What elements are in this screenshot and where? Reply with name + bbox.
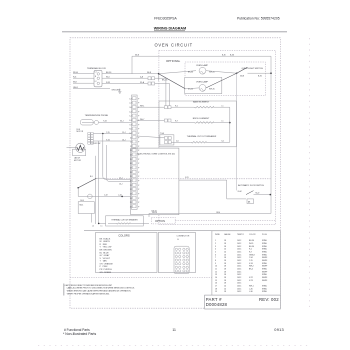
svg-text:105C: 105C <box>237 254 242 256</box>
svg-text:12: 12 <box>215 271 217 273</box>
svg-text:P: P <box>138 159 139 161</box>
svg-text:2-4: 2-4 <box>129 103 131 105</box>
svg-text:18: 18 <box>224 277 226 279</box>
svg-text:P: P <box>138 146 139 148</box>
svg-text:14: 14 <box>224 285 226 287</box>
svg-text:TEMP R: TEMP R <box>237 234 244 236</box>
svg-text:15-J: 15-J <box>122 132 126 134</box>
svg-text:17: 17 <box>215 285 217 287</box>
svg-text:WH-35: WH-35 <box>209 89 215 91</box>
svg-text:18: 18 <box>224 269 226 271</box>
svg-text:WIRING DIAGRAM: WIRING DIAGRAM <box>154 27 186 31</box>
svg-text:SRML: SRML <box>262 263 267 265</box>
svg-text:TERMINAL BLOCK: TERMINAL BLOCK <box>87 67 107 70</box>
svg-text:105C: 105C <box>237 263 242 265</box>
svg-text:11: 11 <box>172 328 176 332</box>
svg-text:14: 14 <box>224 252 226 254</box>
svg-text:SRML: SRML <box>262 240 267 242</box>
svg-text:18-M: 18-M <box>216 212 220 214</box>
svg-text:2: 2 <box>215 243 216 245</box>
svg-text:12: 12 <box>130 146 132 148</box>
svg-text:7: 7 <box>215 257 216 259</box>
svg-text:SEWF: SEWF <box>262 271 268 273</box>
svg-text:R RED: R RED <box>100 244 108 246</box>
svg-text:5-1: 5-1 <box>129 116 131 118</box>
svg-text:WH-1: WH-1 <box>249 285 254 287</box>
svg-text:B-36: B-36 <box>230 55 234 57</box>
svg-text:OVEN CIRCUIT: OVEN CIRCUIT <box>155 42 193 47</box>
svg-text:VERIFY PROPER OPERATION AFTER: VERIFY PROPER OPERATION AFTER SERVICING. <box>67 292 111 295</box>
svg-text:0913: 0913 <box>274 327 284 332</box>
svg-text:16: 16 <box>130 163 132 165</box>
svg-text:WH-7: WH-7 <box>140 119 144 121</box>
svg-text:B-36: B-36 <box>222 55 226 57</box>
svg-text:24: 24 <box>130 198 132 200</box>
svg-text:SEWF: SEWF <box>262 260 268 262</box>
svg-text:105C: 105C <box>237 240 242 242</box>
svg-text:105C: 105C <box>237 269 242 271</box>
svg-text:WH-2: WH-2 <box>249 266 254 268</box>
svg-text:36-M: 36-M <box>240 75 245 77</box>
svg-text:18: 18 <box>224 280 226 282</box>
svg-text:200C: 200C <box>237 271 242 273</box>
svg-text:SRML: SRML <box>262 246 267 248</box>
svg-text:P: P <box>138 193 139 195</box>
svg-text:4: 4 <box>215 249 216 251</box>
svg-text:105C: 105C <box>237 283 242 285</box>
svg-text:P: P <box>138 168 139 170</box>
svg-text:COLOR: COLOR <box>249 234 256 236</box>
svg-text:BK-36: BK-36 <box>162 80 167 82</box>
svg-text:P: P <box>138 198 139 200</box>
svg-text:16-J: 16-J <box>122 139 126 141</box>
svg-text:34-J: 34-J <box>120 121 124 123</box>
svg-text:BK-36: BK-36 <box>188 72 193 74</box>
svg-text:BK-36: BK-36 <box>106 72 111 74</box>
svg-text:18: 18 <box>224 283 226 285</box>
svg-text:21: 21 <box>130 185 132 187</box>
svg-text:R-7: R-7 <box>249 252 252 254</box>
svg-text:P: P <box>138 98 139 100</box>
svg-text:SEWF: SEWF <box>262 277 268 279</box>
svg-text:OPTIONAL: OPTIONAL <box>166 59 181 63</box>
svg-text:105C: 105C <box>237 243 242 245</box>
svg-text:GY GRAY: GY GRAY <box>100 254 111 257</box>
svg-text:15: 15 <box>215 280 217 282</box>
svg-text:P: P <box>138 103 139 105</box>
svg-text:V-23: V-23 <box>249 280 253 282</box>
svg-text:W WHITE: W WHITE <box>100 241 111 243</box>
svg-text:105C: 105C <box>237 274 242 276</box>
svg-text:18: 18 <box>224 243 226 245</box>
svg-text:13: 13 <box>130 150 132 152</box>
svg-text:Y-15: Y-15 <box>249 260 253 262</box>
svg-text:CAUTION/DISCONNECT POWER BEFOR: CAUTION/DISCONNECT POWER BEFORE SERVICIN… <box>65 284 113 287</box>
svg-text:OVEN LAMP: OVEN LAMP <box>196 64 209 67</box>
svg-text:* Non-Illustrated Parts: * Non-Illustrated Parts <box>63 332 96 336</box>
svg-text:SEWF: SEWF <box>262 257 268 259</box>
svg-text:R-1: R-1 <box>175 105 178 107</box>
svg-text:WIRE: WIRE <box>215 234 220 236</box>
svg-text:16: 16 <box>224 254 226 256</box>
svg-text:REV: 002: REV: 002 <box>259 297 279 302</box>
svg-text:COLORS: COLORS <box>118 234 130 238</box>
svg-text:T TAN: T TAN <box>100 260 108 263</box>
svg-text:P: P <box>138 180 139 182</box>
svg-text:18: 18 <box>224 266 226 268</box>
svg-text:FFED3025PSA: FFED3025PSA <box>154 17 177 21</box>
svg-text:P: P <box>138 137 139 139</box>
svg-text:L2: L2 <box>92 226 94 228</box>
svg-text:105C: 105C <box>237 288 242 290</box>
svg-text:THERMAL CUTOUT BREAKER: THERMAL CUTOUT BREAKER <box>187 135 217 138</box>
svg-text:L-32: L-32 <box>118 195 122 197</box>
svg-text:6: 6 <box>215 254 216 256</box>
svg-text:ELECTRONIC OVEN CONTROL ES 100: ELECTRONIC OVEN CONTROL ES 100 <box>138 154 176 156</box>
svg-text:25: 25 <box>130 202 132 204</box>
svg-text:P: P <box>138 129 139 131</box>
svg-text:GAUGE: GAUGE <box>224 233 231 236</box>
svg-text:19: 19 <box>130 176 132 178</box>
svg-text:GRN-8: GRN-8 <box>249 254 255 256</box>
svg-text:W-4: W-4 <box>106 77 109 79</box>
svg-text:P: P <box>138 155 139 157</box>
svg-text:105C: 105C <box>237 291 242 293</box>
svg-text:P: P <box>138 111 139 113</box>
svg-text:SRML: SRML <box>262 243 267 245</box>
svg-text:P: P <box>138 116 139 118</box>
svg-text:WH-35: WH-35 <box>209 72 215 74</box>
svg-text:D0004828: D0004828 <box>206 302 228 307</box>
svg-text:P: P <box>138 189 139 191</box>
svg-text:P: P <box>138 172 139 174</box>
svg-text:4-2: 4-2 <box>129 111 131 113</box>
svg-text:TEMPERATURE PROBE: TEMPERATURE PROBE <box>85 114 109 117</box>
svg-text:11: 11 <box>215 269 217 271</box>
svg-text:LABEL ALL WIRES PRIOR TO DISCO: LABEL ALL WIRES PRIOR TO DISCONNECTION W… <box>67 287 136 290</box>
svg-text:L1: L1 <box>101 226 103 228</box>
svg-text:GROUND: GROUND <box>112 89 121 91</box>
svg-text:18: 18 <box>224 260 226 262</box>
svg-text:22: 22 <box>130 189 132 191</box>
svg-text:V VIOLET: V VIOLET <box>100 258 111 260</box>
svg-text:18: 18 <box>215 288 217 290</box>
svg-text:OPTION: OPTION <box>155 219 165 223</box>
svg-text:L-35: L-35 <box>249 288 253 290</box>
svg-text:GN GREEN: GN GREEN <box>100 272 112 274</box>
svg-text:20-M: 20-M <box>238 191 242 193</box>
svg-text:BL BLUE: BL BLUE <box>100 252 110 254</box>
svg-text:SRML: SRML <box>262 291 267 293</box>
svg-text:14: 14 <box>130 155 132 157</box>
svg-text:Y-34: Y-34 <box>103 121 107 123</box>
svg-text:BROIL ELEMENT: BROIL ELEMENT <box>193 118 210 120</box>
svg-text:R-7: R-7 <box>175 121 178 123</box>
svg-text:B-5: B-5 <box>90 176 93 178</box>
svg-text:18: 18 <box>130 172 132 174</box>
svg-text:5: 5 <box>215 252 216 254</box>
svg-text:P: P <box>138 142 139 144</box>
svg-text:9: 9 <box>215 263 216 265</box>
svg-text:RD-B: RD-B <box>73 72 79 74</box>
svg-text:MOTOR: MOTOR <box>77 131 84 133</box>
svg-text:1: 1 <box>215 240 216 242</box>
svg-text:105C: 105C <box>237 252 242 254</box>
svg-text:PART #: PART # <box>206 297 222 302</box>
svg-text:MDL: MDL <box>80 205 84 207</box>
svg-text:6-1: 6-1 <box>222 141 225 143</box>
svg-text:SRML: SRML <box>262 269 267 271</box>
svg-text:8-5: 8-5 <box>129 129 131 131</box>
svg-text:SRML: SRML <box>262 274 267 276</box>
svg-text:18: 18 <box>224 263 226 265</box>
svg-text:V-23: V-23 <box>185 177 189 179</box>
svg-text:P: P <box>138 150 139 152</box>
svg-text:105C: 105C <box>237 249 242 251</box>
svg-text:L1: L1 <box>95 72 97 74</box>
svg-text:18: 18 <box>224 291 226 293</box>
svg-text:PR PURPLE: PR PURPLE <box>100 269 113 271</box>
svg-text:W-35: W-35 <box>249 243 253 245</box>
svg-text:WH-1: WH-1 <box>140 106 144 108</box>
svg-text:105C: 105C <box>237 285 242 287</box>
svg-text:3: 3 <box>215 246 216 248</box>
svg-text:AUTOMATIC DOOR SWITCH: AUTOMATIC DOOR SWITCH <box>238 184 264 187</box>
svg-text:18: 18 <box>224 240 226 242</box>
svg-text:26: 26 <box>130 206 132 208</box>
svg-text:105C: 105C <box>237 280 242 282</box>
svg-text:CONNECTOR: CONNECTOR <box>177 236 190 238</box>
svg-text:P: P <box>138 202 139 204</box>
svg-text:105C: 105C <box>237 266 242 268</box>
svg-text:V-16: V-16 <box>249 263 253 265</box>
svg-text:Y YELLOW: Y YELLOW <box>100 247 112 249</box>
svg-text:9-2: 9-2 <box>129 133 131 135</box>
svg-text:105C: 105C <box>237 257 242 259</box>
svg-text:14: 14 <box>224 249 226 251</box>
svg-text:OVEN LAMP: OVEN LAMP <box>196 81 209 84</box>
svg-text:1-32: 1-32 <box>104 195 108 197</box>
svg-text:THERMAL CUTOUT BREAKER: THERMAL CUTOUT BREAKER <box>111 218 138 221</box>
svg-text:105C: 105C <box>237 277 242 279</box>
svg-text:23: 23 <box>130 193 132 195</box>
svg-text:P: P <box>138 185 139 187</box>
svg-text:SRML: SRML <box>262 254 267 256</box>
svg-text:3-6: 3-6 <box>129 107 131 109</box>
svg-text:WIRING ERRORS CAN CAUSE IMPROP: WIRING ERRORS CAN CAUSE IMPROPER AND DAN… <box>67 290 132 293</box>
svg-text:OR ORANGE: OR ORANGE <box>100 262 114 265</box>
svg-text:19: 19 <box>215 291 217 293</box>
svg-text:SEWF: SEWF <box>262 266 268 268</box>
svg-text:P PINK: P PINK <box>100 266 109 268</box>
svg-text:SRML: SRML <box>262 249 267 251</box>
svg-text:PLUG: PLUG <box>262 234 267 236</box>
svg-text:L1: L1 <box>222 121 224 123</box>
svg-text:105C: 105C <box>237 260 242 262</box>
svg-text:BAKE ELEMENT: BAKE ELEMENT <box>193 100 210 103</box>
svg-text:10: 10 <box>215 266 217 268</box>
svg-text:10: 10 <box>130 137 132 139</box>
svg-text:L1: L1 <box>222 105 224 107</box>
svg-text:14: 14 <box>224 288 226 290</box>
svg-text:SRML: SRML <box>262 285 267 287</box>
svg-text:20: 20 <box>130 180 132 182</box>
svg-text:BK BLACK: BK BLACK <box>100 237 111 240</box>
svg-text:14: 14 <box>215 277 217 279</box>
svg-text:16: 16 <box>215 283 217 285</box>
svg-text:6-3: 6-3 <box>129 120 131 122</box>
svg-text:P: P <box>138 176 139 178</box>
svg-text:18: 18 <box>224 274 226 276</box>
svg-text:BK-5: BK-5 <box>249 269 253 271</box>
svg-text:V-22: V-22 <box>249 277 253 279</box>
svg-text:L2: L2 <box>95 81 97 83</box>
svg-text:BR BROWN: BR BROWN <box>100 250 113 252</box>
svg-text:SEWF: SEWF <box>262 280 268 282</box>
svg-text:P: P <box>138 124 139 126</box>
svg-text:15: 15 <box>130 159 132 161</box>
svg-text:17: 17 <box>130 168 132 170</box>
svg-text:DB-18: DB-18 <box>152 212 157 214</box>
svg-text:BK-36: BK-36 <box>249 246 254 248</box>
svg-text:7-9: 7-9 <box>129 124 131 126</box>
svg-text:1-8: 1-8 <box>129 98 131 100</box>
svg-text:SRML: SRML <box>262 252 267 254</box>
svg-text:2-6: 2-6 <box>176 141 179 143</box>
svg-text:8: 8 <box>215 260 216 262</box>
svg-text:P: P <box>138 133 139 135</box>
svg-text:Y-34: Y-34 <box>249 257 253 259</box>
svg-text:P: P <box>138 163 139 165</box>
svg-text:Publication No: 5995574205: Publication No: 5995574205 <box>237 17 280 21</box>
svg-text:13: 13 <box>215 274 217 276</box>
svg-text:R-35: R-35 <box>106 82 110 84</box>
svg-text:B-36: B-36 <box>258 75 262 77</box>
svg-text:MOTOR: MOTOR <box>74 160 82 162</box>
svg-text:SRML: SRML <box>262 288 267 290</box>
svg-text:18: 18 <box>224 246 226 248</box>
svg-text:Y-15: Y-15 <box>106 132 110 134</box>
svg-text:18: 18 <box>224 271 226 273</box>
svg-text:P: P <box>138 206 139 208</box>
svg-text:BK-36: BK-36 <box>249 240 254 242</box>
svg-text:R-1: R-1 <box>249 249 252 251</box>
svg-text:L-30: L-30 <box>249 291 253 293</box>
svg-text:105C: 105C <box>237 246 242 248</box>
svg-text:11: 11 <box>130 142 132 144</box>
svg-text:16-J: 16-J <box>119 184 122 186</box>
svg-text:V-16: V-16 <box>106 139 110 141</box>
svg-text:18: 18 <box>224 257 226 259</box>
svg-text:DOOR SW: DOOR SW <box>92 143 101 145</box>
